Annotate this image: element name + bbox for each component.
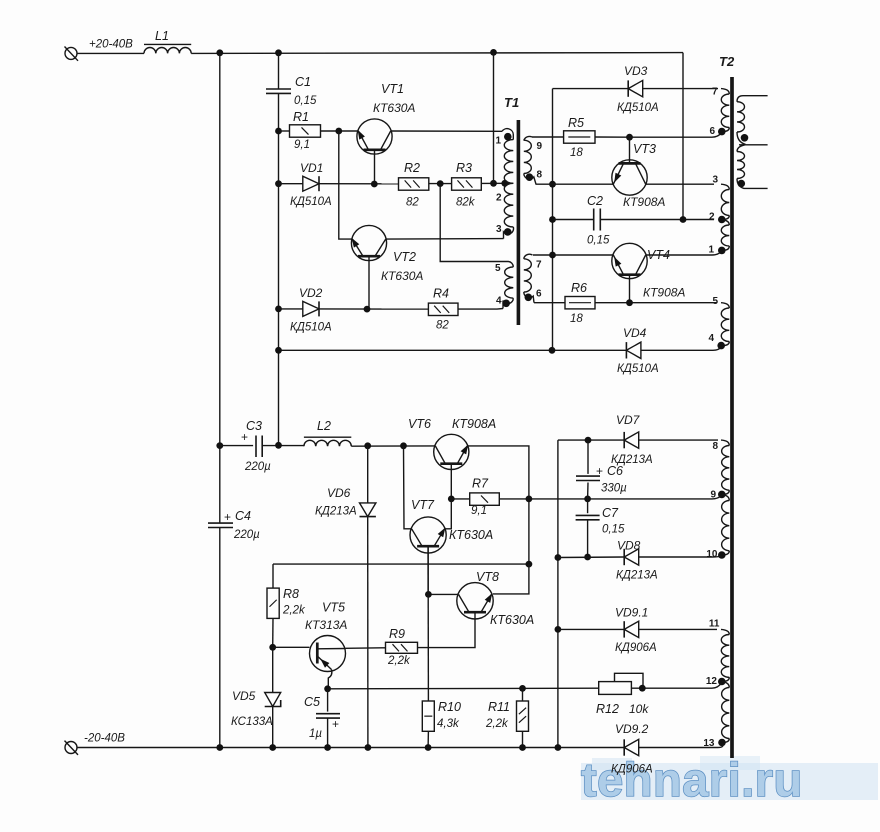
junction rail VD5 <box>269 744 276 751</box>
pin label T2-4 <box>708 333 714 344</box>
wire R11 bottom <box>522 731 524 747</box>
T2 winding 11-12 <box>721 629 729 681</box>
wire VD9.1 to T2 pin11 <box>639 628 717 630</box>
label VD6 type <box>315 506 357 518</box>
junction VT8 collector <box>425 591 432 598</box>
wire R2 to R3 <box>429 183 452 185</box>
label R4 <box>433 287 449 301</box>
wire C2 left <box>553 219 594 221</box>
wire common emitter vertical <box>552 89 554 351</box>
wire VT4 collector to T2 pin1 <box>646 251 722 255</box>
pin label T2-11 <box>709 619 720 630</box>
label VD1 <box>300 161 323 175</box>
label VD1 type <box>290 196 332 208</box>
polarity dot T1 pin6 <box>525 294 533 302</box>
svg-text:VD5: VD5 <box>232 689 256 703</box>
label L1 <box>155 29 169 43</box>
label R12 <box>596 702 619 716</box>
svg-text:82k: 82k <box>456 197 476 209</box>
wire R4 to T1 pin4 <box>458 308 503 311</box>
svg-text:VT7: VT7 <box>411 498 435 512</box>
T1 winding 1-2 with pin1 <box>502 129 513 184</box>
svg-text:КД510А: КД510А <box>617 363 659 375</box>
label VT6 type <box>452 417 496 431</box>
junction VT2 base <box>364 306 371 313</box>
label R3 value <box>456 197 476 209</box>
T1 winding 2-3 <box>504 183 514 238</box>
wire VT6 emitter down <box>467 446 529 564</box>
junction rail VD6 <box>365 744 372 751</box>
capacitor C4 <box>208 523 233 527</box>
capacitor C6 <box>576 476 600 480</box>
svg-text:-20-40В: -20-40В <box>84 733 125 745</box>
svg-text:R5: R5 <box>568 116 584 130</box>
wire C2 right <box>600 219 714 221</box>
label C3 value <box>244 461 271 473</box>
label L2 <box>317 419 331 433</box>
junction top rail x493 <box>490 49 497 56</box>
wire VD8 left <box>558 556 624 559</box>
junction T1 pin2 <box>501 180 508 187</box>
transistor VT4 <box>612 243 647 302</box>
wire R1 to VT1 <box>321 130 359 132</box>
polarity dot T2 secondary A <box>741 134 749 142</box>
svg-text:2: 2 <box>496 193 502 204</box>
junction mid rail x278 <box>275 347 282 354</box>
label VT8 <box>476 570 499 584</box>
svg-text:VT8: VT8 <box>476 570 499 584</box>
label VD6 <box>327 486 351 500</box>
label R6 value <box>570 313 583 325</box>
svg-text:VD4: VD4 <box>623 326 647 340</box>
svg-text:1µ: 1µ <box>309 728 322 740</box>
polarity dot T2 pin1 <box>718 247 726 255</box>
polarity dot T2 pin13 <box>718 739 726 747</box>
label C1 <box>295 75 311 89</box>
T2 winding 7-6 <box>721 89 729 132</box>
svg-text:R1: R1 <box>293 110 309 124</box>
wire VT8 collector <box>428 593 458 595</box>
T2 secondary winding A <box>737 96 768 145</box>
diode VD2 <box>303 301 319 316</box>
pin label T1-3 <box>496 224 502 235</box>
wire left vertical upper <box>219 53 221 523</box>
svg-text:VT1: VT1 <box>381 82 404 96</box>
svg-text:R10: R10 <box>438 700 461 714</box>
svg-text:C6: C6 <box>607 464 623 478</box>
resistor R11 <box>517 701 529 731</box>
junction rail x558 <box>555 744 562 751</box>
resistor R6 <box>565 297 595 309</box>
polarity dot T1 pin1 <box>504 133 512 141</box>
svg-text:2: 2 <box>709 212 715 223</box>
label VD8 type <box>616 570 658 582</box>
svg-text:10k: 10k <box>629 702 649 716</box>
label +20-40V <box>89 39 133 51</box>
svg-text:R4: R4 <box>433 287 449 301</box>
junction mid rail x552 <box>549 347 556 354</box>
junction R8 wire x529 <box>526 561 533 568</box>
wire VD5 upper <box>272 647 274 692</box>
wire R10 bottom <box>427 731 429 747</box>
diode VD6 <box>360 503 376 517</box>
wire C5 lower <box>327 718 329 747</box>
svg-text:КД906А: КД906А <box>611 764 653 776</box>
wire R1 left <box>279 130 290 132</box>
label VD9.1 type <box>615 642 657 654</box>
diode VD4 <box>626 342 641 358</box>
label R1 value <box>294 139 310 151</box>
polarity dot T2 pin2 <box>718 216 726 224</box>
svg-text:2,2k: 2,2k <box>387 655 411 667</box>
svg-text:0,15: 0,15 <box>294 95 317 107</box>
svg-text:КТ630А: КТ630А <box>449 528 493 542</box>
transistor VT1 <box>357 119 392 184</box>
pin label T2-10 <box>706 549 718 560</box>
wire R6 to VT4 base <box>595 302 630 304</box>
output terminal -20-40V <box>65 741 79 755</box>
watermark tehnari.ru <box>581 753 878 806</box>
pin label T1-6 <box>536 288 542 299</box>
label VD5 <box>232 689 256 703</box>
label R4 value <box>436 320 449 332</box>
junction top rail x278 <box>275 49 282 56</box>
wire VT5 base <box>273 646 310 648</box>
wire VD8 to T2 pin10 <box>639 556 722 557</box>
svg-text:82: 82 <box>436 320 449 332</box>
label VT1 <box>381 82 404 96</box>
label VT2 <box>393 250 416 264</box>
svg-text:1: 1 <box>708 244 714 255</box>
label VT1 type <box>373 101 415 115</box>
svg-text:T2: T2 <box>719 54 735 69</box>
svg-text:КТ908А: КТ908А <box>623 195 665 209</box>
label VT2 type <box>381 269 423 283</box>
polarity dot T2 pin12 <box>718 678 726 686</box>
label VT3 <box>633 142 656 156</box>
label VD2 type <box>290 322 332 334</box>
label VD7 <box>616 413 641 427</box>
label VT3 type <box>623 195 665 209</box>
T2 winding 9-10 <box>722 494 730 555</box>
svg-text:8: 8 <box>712 441 718 452</box>
label VD9.1 <box>615 606 648 620</box>
label C3 plus <box>241 430 248 444</box>
junction VT4 base <box>626 299 633 306</box>
svg-text:+20-40В: +20-40В <box>89 39 133 51</box>
label R5 value <box>570 147 583 159</box>
transformer T2 core <box>730 77 734 758</box>
wire C3 left <box>220 445 253 447</box>
inductor L1 <box>144 44 191 53</box>
svg-text:R12: R12 <box>596 702 619 716</box>
label VD5 type <box>231 716 273 728</box>
svg-text:4: 4 <box>496 296 502 307</box>
junction C7 bottom <box>584 554 591 561</box>
T1 winding 7-6 <box>524 254 534 303</box>
svg-text:КТ630А: КТ630А <box>373 101 415 115</box>
svg-text:C4: C4 <box>235 509 251 523</box>
resistor R10 <box>422 701 434 731</box>
diode VD3 <box>628 80 643 96</box>
polarity dot T1 pin8 <box>526 173 534 181</box>
junction rail C5 <box>324 744 331 751</box>
pin label T2-8 <box>712 441 718 452</box>
label VT4 type <box>643 286 685 300</box>
pin label T1-2 <box>496 193 502 204</box>
wire VD3 to T2 pin7 <box>643 88 718 90</box>
junction R7 right <box>526 496 533 503</box>
svg-text:R11: R11 <box>488 700 510 714</box>
svg-text:5: 5 <box>712 296 718 307</box>
wire minus column x558 <box>557 440 559 747</box>
T2 winding 5-4 <box>721 303 729 346</box>
svg-text:КД510А: КД510А <box>617 102 659 114</box>
svg-text:0,15: 0,15 <box>587 235 610 247</box>
wire C6 upper <box>587 440 589 474</box>
svg-text:C3: C3 <box>246 419 262 433</box>
label VD3 <box>624 64 648 78</box>
label R7 <box>472 477 489 491</box>
wire VT4 emitter <box>533 254 613 256</box>
label VD4 type <box>617 363 659 375</box>
junction R12 tap <box>639 685 646 692</box>
wire x278 to C1 <box>278 53 280 89</box>
wire VT2 collector to T1 pin3 <box>386 238 504 241</box>
capacitor C3 <box>256 436 262 458</box>
label C4 value <box>233 529 260 541</box>
svg-text:C5: C5 <box>304 695 320 709</box>
svg-text:+: + <box>596 464 603 478</box>
resistor R5 <box>564 131 595 143</box>
label R12 value <box>629 702 649 716</box>
wire VT8 base <box>418 612 476 647</box>
junction C6 bottom <box>584 496 591 503</box>
svg-text:220µ: 220µ <box>244 461 271 473</box>
resistor R9 <box>386 642 418 653</box>
svg-text:VD2: VD2 <box>299 286 323 300</box>
svg-text:КТ630А: КТ630А <box>490 613 534 627</box>
svg-text:C2: C2 <box>587 194 603 208</box>
junction VD9.1 left <box>555 626 562 633</box>
junction C2 right <box>680 216 687 223</box>
wire VD1 left <box>279 183 303 185</box>
wire R8 upper lead <box>272 564 274 588</box>
label C5 value <box>309 728 322 740</box>
label T2 <box>719 54 735 69</box>
label VT5 type <box>305 618 347 632</box>
svg-text:C1: C1 <box>295 75 311 89</box>
label C7 value <box>602 524 625 536</box>
svg-text:7: 7 <box>712 86 718 97</box>
junction rail R11 <box>519 744 526 751</box>
pin label T2-2 <box>709 212 715 223</box>
svg-text:КД906А: КД906А <box>615 642 657 654</box>
svg-text:5: 5 <box>495 263 501 274</box>
junction VT6 node <box>400 442 407 449</box>
svg-text:КТ908А: КТ908А <box>452 417 496 431</box>
svg-text:L1: L1 <box>155 29 169 43</box>
wire VD6 upper <box>367 446 369 503</box>
label C7 <box>602 506 619 520</box>
wire VT3 emitter <box>536 183 614 185</box>
svg-text:R3: R3 <box>456 161 472 175</box>
label C5 <box>304 695 320 709</box>
label R1 <box>293 110 309 124</box>
label C2 <box>587 194 603 208</box>
label VD8 <box>617 539 641 553</box>
junction R1 right node <box>335 128 342 135</box>
svg-text:VT2: VT2 <box>393 250 416 264</box>
transistor VT7 <box>410 517 446 595</box>
wire VD3 left <box>553 88 629 90</box>
label C4 plus <box>224 510 231 524</box>
svg-text:10: 10 <box>706 549 718 560</box>
pin label T2-13 <box>703 738 715 749</box>
capacitor C7 <box>576 515 600 519</box>
junction R11 top <box>519 685 526 692</box>
svg-text:4,3k: 4,3k <box>437 718 460 730</box>
svg-text:18: 18 <box>570 147 583 159</box>
diode VD1 <box>303 176 319 191</box>
junction VT5 base <box>269 644 276 651</box>
svg-text:VD1: VD1 <box>300 161 323 175</box>
label C3 <box>246 419 262 433</box>
pin label T2-7 <box>712 86 718 97</box>
junction VT4 emitter <box>549 252 556 259</box>
pin label T2-3 <box>712 175 718 186</box>
transistor VT8 <box>457 583 493 619</box>
junction VD1 left <box>275 180 282 187</box>
label C1 value <box>294 95 317 107</box>
wire VT5 emitter rail <box>328 687 599 690</box>
diode VD9.1 <box>624 621 639 637</box>
label VT6 <box>408 417 431 431</box>
svg-text:+: + <box>224 510 231 524</box>
svg-text:VD7: VD7 <box>616 413 641 427</box>
junction C2 left <box>549 216 556 223</box>
junction rail R10 <box>425 744 432 751</box>
junction VT6 base R7 <box>448 496 455 503</box>
svg-text:0,15: 0,15 <box>602 524 625 536</box>
label R3 <box>456 161 472 175</box>
wire R7 left <box>451 498 469 500</box>
junction R3 right <box>490 180 497 187</box>
svg-text:VD9.2: VD9.2 <box>615 722 649 736</box>
label VT5 <box>322 601 345 615</box>
label VD9.2 <box>615 722 649 736</box>
label R11 <box>488 700 510 714</box>
svg-text:КС133А: КС133А <box>231 716 273 728</box>
svg-text:R9: R9 <box>389 627 405 641</box>
junction VT5 emitter C5 <box>324 685 331 692</box>
label R2 <box>404 161 420 175</box>
label C6 <box>607 464 623 478</box>
svg-text:R6: R6 <box>571 281 587 295</box>
pin label T2-9 <box>710 489 716 500</box>
junction R2 R3 <box>437 180 444 187</box>
junction rail x220 <box>216 744 223 751</box>
resistor R4 <box>428 303 458 315</box>
junction VT3 base <box>626 134 633 141</box>
svg-text:1: 1 <box>495 136 501 147</box>
svg-text:3: 3 <box>712 175 718 186</box>
label R7 value <box>471 505 487 517</box>
label R9 <box>389 627 405 641</box>
svg-text:8: 8 <box>536 170 542 181</box>
svg-text:220µ: 220µ <box>233 529 260 541</box>
svg-text:L2: L2 <box>317 419 331 433</box>
wire C7 upper <box>587 499 589 513</box>
capacitor C1 <box>266 89 291 93</box>
wire R12 right <box>631 683 721 689</box>
wire VD9.2 to T2 pin13 <box>639 744 723 748</box>
junction VT3 emitter <box>549 181 556 188</box>
wire C3 right <box>262 445 304 447</box>
wire R9 to VT5 collector <box>345 647 385 650</box>
label T1 <box>504 95 519 110</box>
wire VD9.1 left <box>558 628 624 630</box>
wire R7 to T2 pin9 <box>499 495 722 499</box>
wire x493 vertical <box>493 52 495 183</box>
label R11 value <box>485 718 509 730</box>
resistor R8 <box>267 588 279 618</box>
svg-text:VD3: VD3 <box>624 64 648 78</box>
wire top rail <box>191 52 683 55</box>
polarity dot T2 pin9 <box>718 491 726 499</box>
wire VD7 to T2 pin8 <box>639 439 718 441</box>
svg-text:КТ313А: КТ313А <box>305 618 347 632</box>
wire R5 to VT3 base <box>595 136 630 138</box>
wire VT6 emitter ... VD7 corner <box>558 439 624 441</box>
label C2 value <box>587 235 610 247</box>
pin label T2-6 <box>709 126 715 137</box>
label R5 <box>568 116 584 130</box>
label VD9.2 type <box>611 764 653 776</box>
svg-text:9: 9 <box>536 141 542 152</box>
junction C6 top <box>585 437 592 444</box>
wire VT7 collector link <box>404 446 412 529</box>
svg-text:VT5: VT5 <box>322 601 345 615</box>
svg-text:VD6: VD6 <box>327 486 351 500</box>
resistor R1 <box>290 125 321 137</box>
T2 winding 2-1 <box>721 220 729 251</box>
polarity dot T2 secondary B <box>738 180 746 188</box>
polarity dot T2 pin4 <box>717 342 725 350</box>
wire VD1 to R2 <box>319 183 399 185</box>
label C4 <box>235 509 251 523</box>
diode VD9.2 <box>624 739 639 755</box>
label C6 value <box>601 483 627 495</box>
wire VD2 left <box>279 308 303 310</box>
wire R3 to T1 pin2 <box>481 182 509 184</box>
diode VD8 <box>624 549 639 565</box>
pin label T1-5 <box>495 263 501 274</box>
junction VD6 top <box>364 442 371 449</box>
input terminal +20-40V <box>65 47 79 61</box>
resistor R7 <box>470 493 500 505</box>
label VT4 <box>647 248 670 262</box>
wire VT8 emitter link <box>493 564 529 594</box>
wire R8 top link <box>273 563 529 565</box>
wire top rail drop to C2 node <box>682 53 684 220</box>
polarity dot T1 pin4 <box>502 300 510 308</box>
wire VT7 base down <box>427 546 429 701</box>
wire VT3 collector to T2 pin3 <box>646 183 714 185</box>
wire VD5 lower <box>272 707 274 748</box>
T1 winding 5-4 <box>503 262 513 309</box>
wire VD6 lower <box>367 517 369 748</box>
